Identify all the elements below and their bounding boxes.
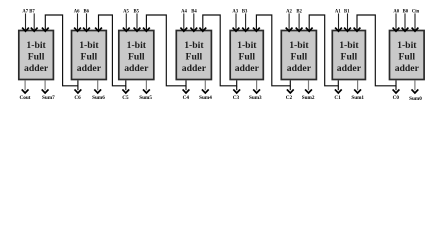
svg-text:C0: C0 [393,95,400,101]
input A1 wire into FA1 [335,10,342,32]
input B0 wire into FA0 [402,10,409,32]
svg-text:B3: B3 [242,10,248,15]
svg-text:Sum0: Sum0 [409,96,422,102]
svg-text:B0: B0 [403,10,409,15]
full adder FA3 (1-bit Full adder, bit 3) [230,31,263,80]
svg-text:adder: adder [235,63,260,74]
svg-text:C4: C4 [183,95,190,101]
input B1 wire into FA1 [344,10,351,32]
carry chain C3: FA3 carry-out down, branch to C3 arrow and up/over into FA4 Cin [199,15,236,86]
svg-text:C6: C6 [74,95,81,101]
carry chain C1: FA1 carry-out down, branch to C1 arrow and up/over into FA2 Cin [306,15,339,86]
svg-text:adder: adder [24,63,49,74]
svg-text:Full: Full [238,52,255,63]
carry chain C6: FA6 carry-out down, branch to C6 arrow and up/over into FA7 Cin [42,15,78,86]
full adder FA2 (1-bit Full adder, bit 2) [281,31,316,80]
full adder FA7 (1-bit Full adder, bit 7) [19,31,54,80]
svg-text:1-bit: 1-bit [26,40,46,51]
svg-text:Full: Full [186,52,203,63]
output Sum1 wire from FA1 [351,80,364,101]
input B4 wire into FA4 [190,10,197,32]
C4 arrow and label [183,86,190,101]
C1 arrow and label [334,86,341,101]
svg-text:1-bit: 1-bit [237,40,257,51]
input B2 wire into FA2 [296,10,303,32]
output Sum0 wire from FA0 [409,80,422,102]
full adder FA0 (1-bit Full adder, bit 0) [390,31,425,80]
output Sum6 wire from FA6 [92,80,105,101]
svg-text:A6: A6 [74,10,80,15]
svg-text:Sum2: Sum2 [302,95,315,101]
svg-text:Full: Full [341,52,358,63]
svg-text:1-bit: 1-bit [184,40,204,51]
carry chain C5: FA5 carry-out down, branch to C5 arrow and up/over into FA6 Cin [95,15,126,86]
carry chain C4: FA4 carry-out down, branch to C4 arrow and up/over into FA5 Cin [143,15,186,86]
full adder FA5 (1-bit Full adder, bit 5) [119,31,154,80]
svg-text:C5: C5 [122,95,129,101]
svg-text:adder: adder [124,63,149,74]
svg-text:1-bit: 1-bit [79,40,99,51]
input A5 wire into FA5 [123,10,130,32]
svg-text:Full: Full [28,52,45,63]
carry chain C2: FA2 carry-out down, branch to C2 arrow and up/over into FA3 Cin [253,15,290,86]
svg-text:1-bit: 1-bit [127,40,147,51]
output Cout wire from FA7 [20,80,31,101]
svg-text:C3: C3 [233,95,240,101]
svg-text:Sum5: Sum5 [139,95,152,101]
full adder FA6 (1-bit Full adder, bit 6) [72,31,107,80]
output Sum4 wire from FA4 [199,80,212,101]
input A6 wire into FA6 [74,10,81,32]
C0 arrow and label [393,86,400,101]
svg-text:Full: Full [81,52,98,63]
svg-text:Sum3: Sum3 [249,95,262,101]
svg-text:Sum7: Sum7 [42,95,55,101]
svg-text:Full: Full [291,52,308,63]
full adder FA4 (1-bit Full adder, bit 4) [176,31,211,80]
output Sum2 wire from FA2 [302,80,315,101]
svg-text:Full: Full [128,52,145,63]
svg-text:adder: adder [77,63,102,74]
full adder FA1 (1-bit Full adder, bit 1) [332,31,365,80]
input B5 wire into FA5 [133,10,140,32]
svg-text:adder: adder [395,63,420,74]
input B7 wire into FA7 [29,10,37,32]
svg-text:C1: C1 [334,95,341,101]
svg-text:adder: adder [337,63,362,74]
C6 arrow and label [74,86,81,101]
svg-text:Sum6: Sum6 [92,95,105,101]
output Sum3 wire from FA3 [249,80,262,101]
C5 arrow and label [122,86,129,101]
input A0 wire into FA0 [393,10,400,32]
svg-text:C2: C2 [286,95,293,101]
C3 arrow and label [233,86,240,101]
svg-text:adder: adder [182,63,207,74]
input A3 wire into FA3 [232,10,239,32]
input Cin wire into FA0 [412,10,420,32]
svg-text:1-bit: 1-bit [339,40,359,51]
input B3 wire into FA3 [242,10,249,32]
svg-text:1-bit: 1-bit [397,40,417,51]
input A2 wire into FA2 [286,10,293,32]
input A4 wire into FA4 [180,10,187,32]
svg-text:Cout: Cout [20,95,31,101]
input A7 wire into FA7 [22,10,29,32]
C2 arrow and label [286,86,294,101]
svg-text:Sum1: Sum1 [351,95,364,101]
carry chain C0: FA0 carry-out down, branch to C0 arrow and up/over into FA1 Cin [354,15,396,86]
input B6 wire into FA6 [83,10,90,32]
output Sum7 wire from FA7 [42,80,55,101]
output Sum5 wire from FA5 [139,80,152,101]
svg-text:Sum4: Sum4 [199,95,212,101]
svg-text:Cin: Cin [412,10,420,15]
svg-text:1-bit: 1-bit [289,40,309,51]
svg-text:Full: Full [398,52,415,63]
svg-text:adder: adder [287,63,312,74]
